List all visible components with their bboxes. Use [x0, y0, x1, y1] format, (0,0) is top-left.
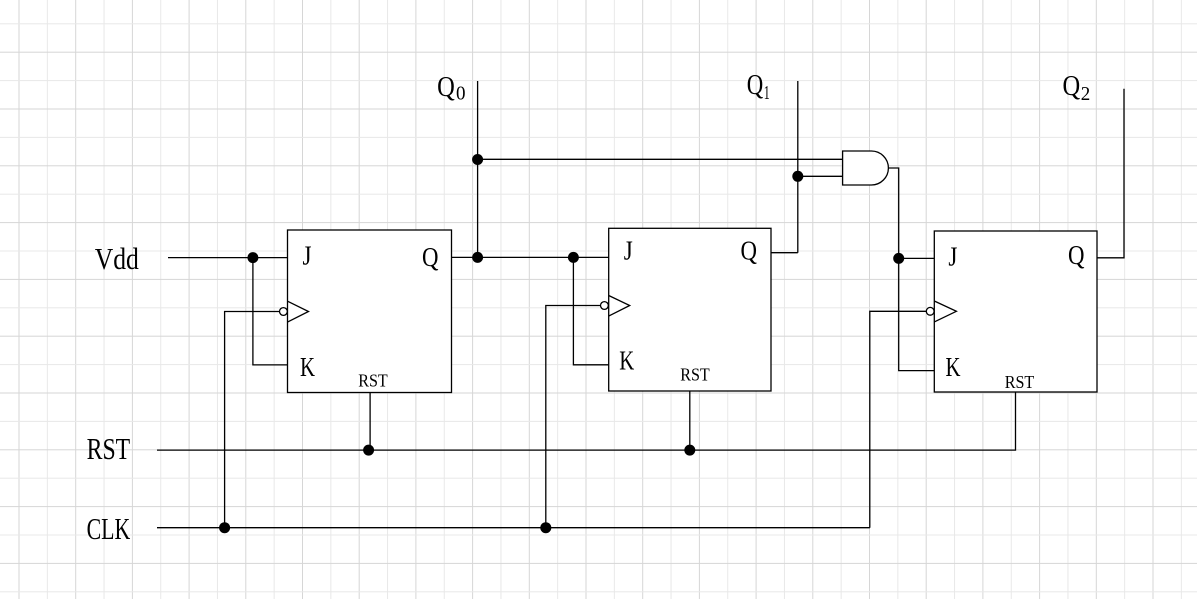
- JK flip-flop U1: [280, 230, 452, 393]
- wire: U2.Q to Q1 riser: [771, 252, 798, 254]
- U1 clock inversion bubble: [280, 308, 288, 316]
- wire: U1 RST pin drop: [369, 393, 371, 451]
- wire: CLK bus: [157, 527, 870, 529]
- JK flip-flop U2: [601, 228, 772, 391]
- U3 clock edge triangle: [934, 301, 956, 322]
- svg-text:Q: Q: [422, 241, 439, 272]
- junction: CLK bus / U2 clock riser: [540, 522, 551, 533]
- junction: U1.Q / Q0 riser: [472, 252, 483, 263]
- svg-text:Vdd: Vdd: [95, 242, 139, 276]
- wire: CLK riser to U1 clock: [225, 312, 280, 528]
- junction: U2.J / K tie: [568, 252, 579, 263]
- svg-text:RST: RST: [680, 364, 710, 384]
- svg-text:CLK: CLK: [87, 512, 131, 546]
- junction: CLK bus / U1 clock riser: [219, 522, 230, 533]
- svg-text:J: J: [624, 235, 633, 266]
- svg-text:J: J: [948, 241, 957, 272]
- U1 clock edge triangle: [288, 301, 309, 322]
- svg-text:Q: Q: [747, 70, 764, 101]
- JK flip-flop U3: [926, 231, 1097, 392]
- svg-text:Q: Q: [1068, 239, 1085, 270]
- junction: Vdd / U1.K tie: [247, 252, 258, 263]
- wire: U1.Q to U2.J: [452, 256, 609, 258]
- U2 clock inversion bubble: [601, 302, 609, 310]
- junction: Q1 riser / AND input B: [792, 171, 803, 182]
- svg-text:J: J: [303, 239, 312, 270]
- net label Q0: [437, 72, 465, 104]
- svg-text:Q: Q: [437, 72, 455, 103]
- svg-text:1: 1: [764, 82, 770, 104]
- wire: U3.Q to Q2 riser: [1097, 89, 1124, 258]
- svg-text:K: K: [300, 351, 315, 382]
- U3 clock inversion bubble: [926, 307, 934, 315]
- wire: U2 J-K tie vertical: [573, 257, 608, 364]
- wire: CLK riser to U3 clock: [870, 311, 935, 527]
- U2 clock edge triangle: [609, 296, 630, 317]
- svg-text:RST: RST: [358, 370, 388, 390]
- wire: RST bus: [157, 392, 1016, 450]
- svg-text:RST: RST: [87, 432, 131, 466]
- svg-text:K: K: [946, 351, 961, 382]
- junction: RST bus / U2 RST pin: [684, 445, 695, 456]
- svg-text:K: K: [619, 344, 634, 375]
- svg-text:0: 0: [456, 83, 466, 105]
- junction: Q0 riser / AND input A: [472, 154, 483, 165]
- wire: Vdd to U1.J: [168, 257, 288, 259]
- svg-text:2: 2: [1081, 83, 1091, 105]
- junction: AND output / U3.J: [893, 253, 904, 264]
- wire: Q0 to AND input A: [478, 158, 843, 160]
- wire: U1 J-K tie vertical: [253, 258, 288, 365]
- wire: CLK riser to U2 clock: [546, 306, 601, 528]
- wire: AND output to U3.J and U3.K: [888, 168, 934, 371]
- wire: U2 RST pin drop: [689, 391, 691, 450]
- junction: RST bus / U1 RST pin: [363, 445, 374, 456]
- wire: Q1 riser: [797, 81, 799, 253]
- svg-text:RST: RST: [1005, 372, 1035, 392]
- wire: Q1 to AND input B: [798, 175, 843, 177]
- svg-text:Q: Q: [1063, 71, 1081, 102]
- AND gate G1: [843, 151, 889, 185]
- wire: Q0 riser: [477, 81, 479, 257]
- net label Q2: [1063, 71, 1091, 105]
- wire: AND output junction to U3.J: [899, 257, 935, 259]
- net label Q1: [747, 70, 770, 104]
- svg-text:Q: Q: [741, 235, 758, 266]
